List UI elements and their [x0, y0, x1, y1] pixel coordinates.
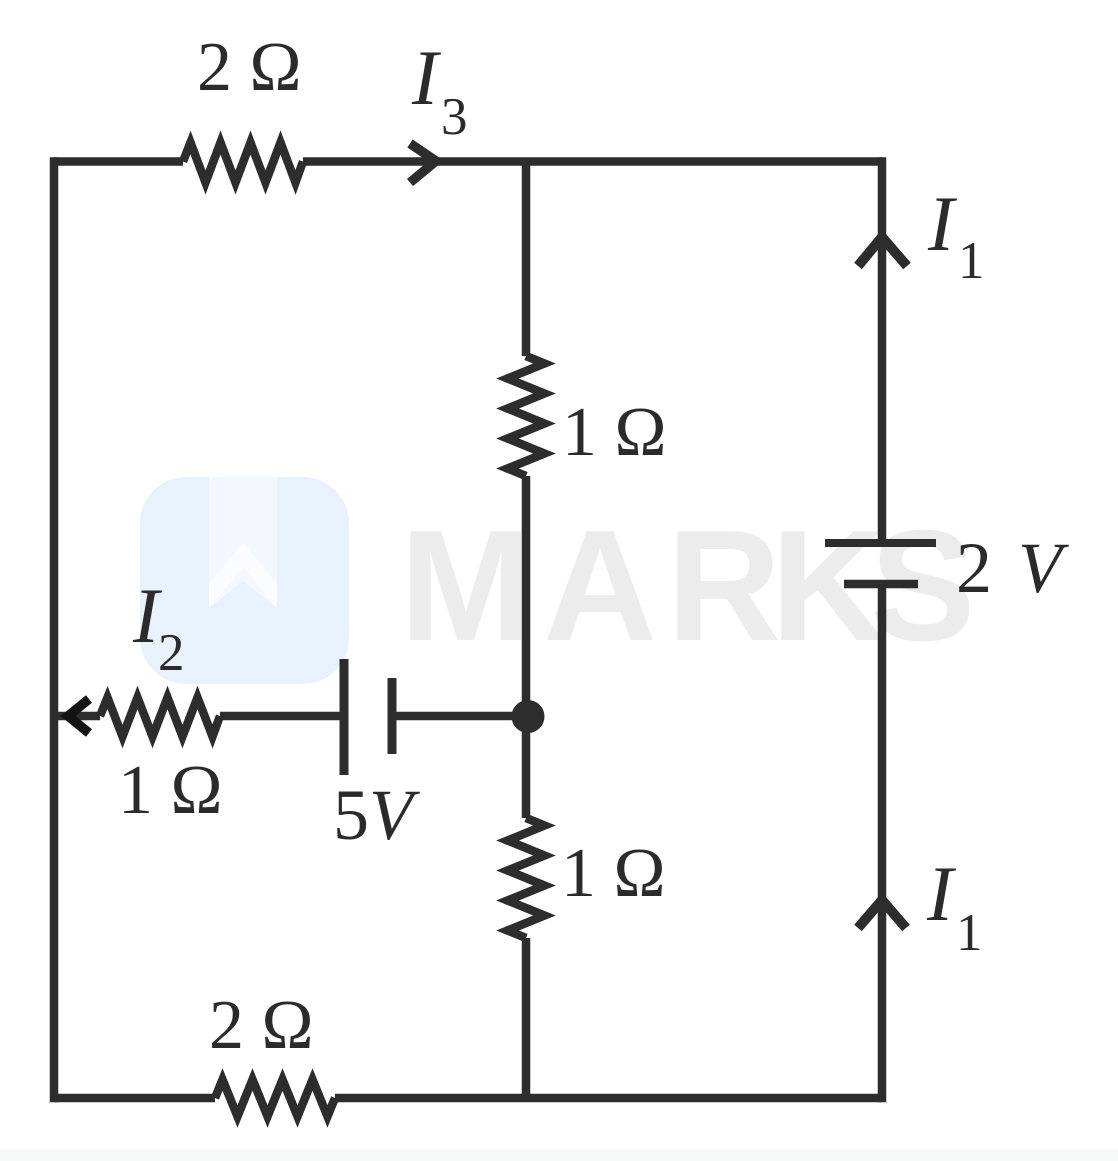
resistor R branch 1ohm zigzag — [100, 698, 220, 737]
svg-text:1 Ω: 1 Ω — [561, 835, 666, 912]
svg-text:1: 1 — [958, 232, 985, 290]
wire right lower — [878, 584, 887, 1102]
svg-text:1: 1 — [956, 904, 983, 962]
wire branch to battery — [220, 712, 344, 721]
svg-text:5V: 5V — [333, 775, 420, 855]
wire branch left stub — [54, 712, 100, 721]
wire bottom-right segment — [335, 1094, 882, 1103]
wire battery to node — [392, 712, 526, 721]
resistor R top 2ohm zigzag — [183, 143, 303, 183]
arrow I3 right — [410, 144, 436, 183]
battery B2 2V long plate — [825, 539, 936, 547]
svg-text:I: I — [927, 180, 958, 267]
resistor R mid lower 1ohm zigzag — [508, 818, 545, 938]
node junction dot — [512, 700, 545, 733]
svg-text:2: 2 — [158, 624, 185, 682]
svg-text:1 Ω: 1 Ω — [562, 394, 667, 471]
svg-text:I: I — [926, 850, 957, 937]
wire middle bottom — [522, 938, 531, 1098]
battery B2 2V short plate — [844, 580, 918, 589]
wire top-left segment — [54, 157, 183, 166]
svg-text:2 Ω: 2 Ω — [197, 29, 302, 106]
resistor R mid upper 1ohm zigzag — [508, 356, 545, 476]
wire bottom-left segment — [54, 1094, 215, 1103]
arrow I1 top up — [858, 237, 907, 266]
wire middle center — [522, 476, 531, 818]
wire middle top — [522, 162, 531, 357]
arrow I2 left — [68, 699, 89, 733]
svg-text:I: I — [411, 34, 442, 121]
battery B1 5V short plate — [388, 678, 397, 754]
watermark logo — [140, 477, 349, 684]
wire left side — [50, 157, 59, 1102]
battery B1 5V tall plate — [340, 659, 349, 775]
wire right upper — [878, 157, 887, 540]
svg-text:2: 2 — [956, 528, 992, 608]
arrow I1 bottom up — [858, 900, 906, 928]
wire top-right segment — [303, 157, 882, 166]
svg-text:3: 3 — [441, 88, 468, 146]
resistor R bottom 2ohm zigzag — [215, 1080, 335, 1117]
svg-text:V: V — [1018, 528, 1069, 608]
svg-text:2 Ω: 2 Ω — [209, 987, 314, 1064]
svg-text:1 Ω: 1 Ω — [118, 752, 223, 829]
